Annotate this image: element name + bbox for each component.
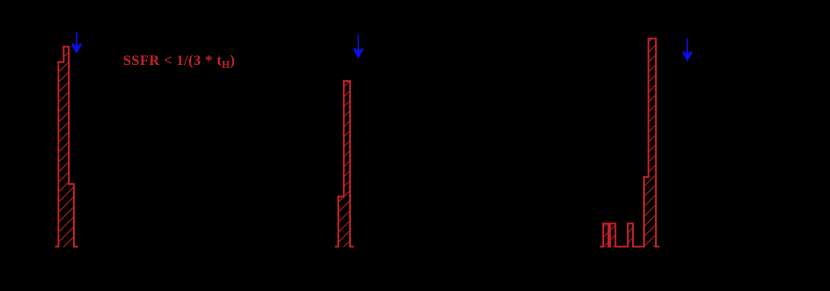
svg-text:SSFR < 1/(3 * tH): SSFR < 1/(3 * tH) <box>123 53 235 71</box>
